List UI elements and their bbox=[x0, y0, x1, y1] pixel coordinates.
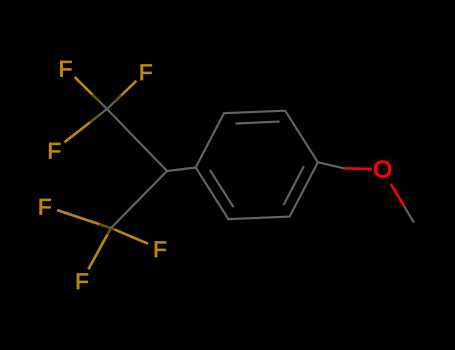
bond C2-F1 (colored half) bbox=[75, 77, 93, 95]
bond C2-F2 (colored half) bbox=[121, 81, 136, 96]
svg-text:F: F bbox=[139, 60, 153, 85]
bond CH to bottom CF3 carbon bbox=[111, 171, 167, 228]
bond ring to CH bbox=[167, 168, 196, 172]
bond C3-F5 (colored half) bbox=[115, 230, 148, 244]
bond C2-F3 (carbon-side tail) bbox=[99, 109, 108, 116]
double bond top bbox=[236, 122, 280, 124]
bond C3-F5 (fade) bbox=[112, 229, 115, 230]
bond C3-F6 (carbon-side tail) bbox=[109, 228, 112, 229]
svg-text:O: O bbox=[373, 157, 392, 184]
bond C3-F4 (carbon-side tail) bbox=[109, 226, 111, 229]
bond C2-F1 (fade) bbox=[93, 95, 99, 101]
bond C3-F6 (fade) bbox=[107, 229, 110, 234]
bond C3-F4 (colored half) bbox=[57, 210, 99, 224]
svg-text:F: F bbox=[75, 269, 89, 294]
svg-text:F: F bbox=[59, 56, 73, 81]
bond C2-F3 (fade) bbox=[90, 116, 99, 123]
double bond right-bottom bbox=[284, 166, 304, 205]
bond C2-F2 (carbon-side tail) bbox=[107, 101, 115, 109]
bond C3-F6 (colored half) bbox=[88, 235, 107, 270]
svg-text:F: F bbox=[47, 139, 61, 164]
double bond left-bottom bbox=[210, 170, 234, 207]
bond CH to top CF3 carbon bbox=[107, 109, 167, 171]
svg-text:F: F bbox=[153, 237, 167, 262]
bond O to ring (red half) bbox=[345, 167, 372, 170]
bond C2-F3 (colored half) bbox=[65, 122, 91, 142]
bond C2-F1 (carbon-side tail) bbox=[99, 101, 107, 109]
benzene ring bbox=[196, 111, 318, 219]
bond O to methyl (gray tail) bbox=[404, 206, 414, 223]
bond O to ring (gray half) bbox=[318, 162, 345, 168]
bond O to methyl (red half) bbox=[391, 184, 404, 206]
svg-text:F: F bbox=[38, 194, 52, 219]
bond C3-F5 (carbon-side tail) bbox=[111, 227, 112, 230]
bond C2-F2 (fade) bbox=[115, 96, 121, 102]
bond C3-F4 (fade) bbox=[99, 224, 109, 227]
